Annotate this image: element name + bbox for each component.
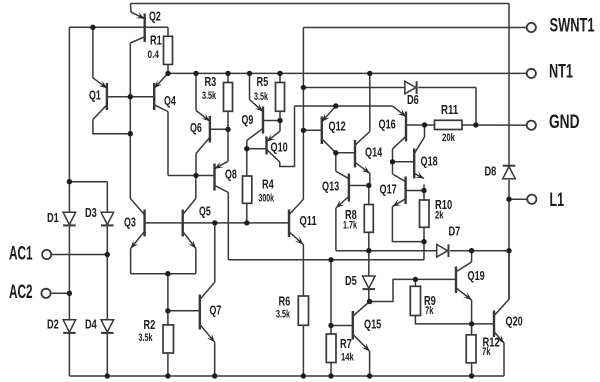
wire R9 top stub: [414, 279, 416, 286]
wire Q18 base wire: [393, 161, 415, 163]
diode D2: [63, 320, 76, 333]
wire Q1 collector path: [93, 120, 130, 134]
wire Q2 collector drop x130: [129, 43, 131, 199]
svg-text:R3: R3: [205, 74, 217, 89]
svg-text:D3: D3: [85, 205, 97, 220]
wire mid rail x107 lower: [106, 226, 108, 320]
diode D5: [363, 276, 376, 289]
wire L1 lead: [509, 198, 527, 200]
junction Q15 base / R7 top: [328, 323, 333, 328]
wire Q15 emitter drop: [369, 351, 371, 376]
svg-text:D8: D8: [485, 163, 497, 178]
wire Q20 collector riser: [508, 251, 510, 300]
wire Q8 collector drop: [227, 193, 229, 260]
wire R10 bottom stub: [423, 227, 425, 241]
resistor R3: [224, 83, 233, 112]
junction Q9 base / R5 bottom: [277, 118, 282, 123]
junction Q18 emitter / R10 / Q17 base: [421, 188, 426, 193]
svg-text:Q10: Q10: [271, 140, 288, 155]
junction R9 top: [413, 277, 418, 282]
svg-text:3.5k: 3.5k: [139, 332, 153, 344]
junction R12 bottom / bottom bus: [469, 373, 474, 378]
wire Q15 base wire: [331, 325, 353, 327]
svg-text:1.7k: 1.7k: [343, 219, 357, 231]
resistor R10: [420, 200, 430, 227]
svg-text:Q12: Q12: [329, 119, 346, 134]
wire R10 corner riser: [423, 242, 425, 260]
junction Q2 collector / base rail: [128, 94, 133, 99]
svg-text:SWNT1: SWNT1: [550, 16, 595, 37]
wire Q8 base wire: [168, 175, 215, 177]
junction R11 right / D6 corner: [473, 122, 478, 127]
transistor Q15: [353, 302, 370, 352]
wire tail drop x168: [167, 274, 169, 325]
diode D7: [437, 244, 449, 257]
wire R5 bottom stub: [279, 111, 281, 120]
junction long rail / R7 branch: [328, 257, 333, 262]
wire Q5 emitter drop: [195, 249, 197, 274]
wire Q14 base wire: [336, 152, 355, 154]
svg-text:300k: 300k: [259, 192, 275, 204]
wire R8 top stub: [368, 186, 370, 205]
wire D6 corner drop: [475, 88, 477, 126]
wire Q14 collector riser: [369, 73, 371, 131]
transistor Q20: [494, 299, 509, 343]
wire AC1 lead: [51, 254, 107, 256]
svg-text:R2: R2: [144, 317, 156, 332]
wire Q7 emitter drop: [214, 342, 216, 376]
wire Q9 base wire: [263, 120, 280, 122]
svg-text:0.4: 0.4: [148, 49, 160, 61]
wire left rail x69 mid: [68, 226, 70, 320]
transistor Q3: [130, 199, 144, 249]
svg-text:Q1: Q1: [89, 88, 101, 103]
svg-text:D7: D7: [449, 224, 461, 239]
transistor Q13: [336, 171, 349, 208]
svg-text:R1: R1: [150, 33, 162, 48]
wire R5 top stub: [279, 73, 281, 82]
diode D3: [101, 212, 114, 225]
wire Q17 base wire: [406, 190, 424, 192]
junction Q1 collector / x130 rail: [128, 131, 133, 136]
wire D5-R9 link: [370, 279, 456, 301]
svg-text:2k: 2k: [435, 210, 444, 222]
svg-text:R7: R7: [340, 336, 352, 351]
svg-text:Q8: Q8: [225, 167, 237, 182]
junction Q19 collector / D7 line: [469, 248, 474, 253]
wire Q5 collector riser: [195, 176, 197, 199]
svg-text:D6: D6: [407, 92, 419, 107]
wire SWNT1 line: [303, 27, 526, 29]
junction D7 line / right rail: [506, 248, 511, 253]
wire Q7 collector riser: [214, 223, 216, 282]
resistor R2: [163, 325, 174, 353]
transistor Q19: [456, 262, 472, 300]
transistor Q16: [393, 106, 407, 149]
junction Q14 collector / bus: [367, 71, 372, 76]
junction R10 bottom / Q17 emitter: [421, 239, 426, 244]
svg-text:20k: 20k: [442, 132, 456, 144]
transistor Q6: [196, 111, 210, 154]
terminal AC1: [42, 250, 51, 259]
wire Q6 collector drop: [195, 154, 197, 176]
wire Q14 emitter drop: [369, 173, 371, 185]
wire R11 left stub: [425, 124, 435, 126]
svg-text:D1: D1: [47, 210, 59, 225]
svg-text:Q15: Q15: [364, 317, 381, 332]
wire left rail x69 upper: [68, 27, 70, 212]
transistor Q10: [267, 131, 281, 162]
wire right rail D8-to-L1 segment: [508, 180, 510, 251]
junction R7 bottom / bottom bus: [328, 373, 333, 378]
diode D6: [405, 81, 417, 94]
wire Q12 base wire: [303, 129, 321, 131]
wire R7 branch drop: [330, 260, 332, 334]
svg-text:7k: 7k: [425, 305, 434, 317]
svg-text:3.5k: 3.5k: [254, 91, 268, 103]
junction Q12 base / x303: [301, 128, 306, 133]
wire Q13 emitter path: [335, 208, 337, 251]
transistor Q11: [289, 199, 303, 244]
wire D5 bottom stub: [368, 290, 370, 302]
wire D6 line left: [303, 87, 404, 89]
wire Q13 base wire: [349, 185, 369, 187]
diode D1: [63, 212, 76, 225]
wire Q6 emitter riser: [195, 73, 197, 110]
wire D1-D3 link y181: [69, 181, 107, 183]
wire right rail upper segment: [508, 4, 510, 166]
transistor Q7: [200, 282, 215, 342]
junction Q12 emitter / y106 rail: [333, 103, 338, 108]
terminal NT1: [527, 69, 536, 78]
svg-text:Q19: Q19: [468, 268, 485, 283]
junction Q12 collector / Q14 base / Q13 collector: [333, 150, 338, 155]
svg-text:D4: D4: [85, 317, 97, 332]
wire D7 line right: [450, 250, 509, 252]
svg-text:Q2: Q2: [149, 8, 161, 23]
wire D6 line right to corner: [418, 87, 476, 89]
svg-text:Q18: Q18: [421, 154, 438, 169]
junction R1 bottom / bus / Q4 emitter: [165, 71, 170, 76]
diode D8: [503, 166, 516, 179]
wire input base rail y223: [145, 222, 289, 224]
junction L1 / right rail: [506, 197, 511, 202]
terminal GND: [527, 121, 536, 130]
svg-text:R11: R11: [441, 102, 458, 117]
wire Q18 emitter drop: [423, 185, 425, 191]
wire Q8 emitter riser: [227, 129, 229, 161]
junction R8 bottom / D7 line / D5: [366, 248, 371, 253]
junction Q6 collector / Q8 base / Q5 collector: [193, 173, 198, 178]
wire right rail L1-to-Q20 segment: [508, 251, 510, 300]
transistor Q5: [183, 199, 196, 249]
svg-text:Q20: Q20: [506, 314, 523, 329]
wire Q18 collector riser: [424, 125, 426, 137]
wire Q6 base wire: [210, 128, 228, 130]
wire Q9 collector drop: [246, 141, 248, 149]
svg-text:Q3: Q3: [124, 215, 136, 230]
wire left rail x69 lower: [68, 334, 70, 377]
wire Q16-Q17 collector link x392: [392, 149, 394, 174]
junction tail / x168 drop: [165, 271, 170, 276]
resistor R6: [298, 296, 308, 325]
junction Q6 base / R3 bottom: [225, 127, 230, 132]
junction R3 / bus: [225, 71, 230, 76]
svg-text:14k: 14k: [341, 352, 354, 364]
svg-text:R6: R6: [279, 294, 291, 309]
wire R4 top stub: [246, 149, 248, 176]
wire Q9 emitter riser: [249, 73, 251, 99]
svg-text:3.5k: 3.5k: [276, 308, 290, 320]
wire main bus y73: [168, 72, 527, 74]
junction Q7 base / R2 top: [165, 308, 170, 313]
transistor Q1: [93, 78, 107, 120]
svg-text:7k: 7k: [482, 346, 491, 358]
svg-text:AC2: AC2: [9, 282, 33, 303]
svg-text:L1: L1: [550, 190, 565, 211]
junction D5 bottom / Q15 collector: [367, 299, 372, 304]
wire bottom bus: [69, 375, 504, 377]
junction Q9 emitter / bus: [247, 71, 252, 76]
wire Q20 emitter drop: [503, 343, 505, 376]
junction Q14 emitter / R8 / Q13 base: [366, 183, 371, 188]
wire R1 bottom stub: [167, 65, 169, 74]
transistor Q14: [355, 132, 370, 174]
wire Q10 collector path: [280, 106, 295, 167]
wire R12 bottom stub: [471, 363, 473, 376]
wire D5 top stub: [368, 251, 370, 276]
resistor R1: [164, 36, 173, 64]
transistor Q4: [154, 73, 168, 111]
wire long rail y260: [228, 259, 424, 261]
wire AC2 lead: [51, 292, 70, 294]
wire Q19 collector riser: [471, 251, 473, 262]
junction Q19 emitter / R12 / Q20 base: [469, 321, 474, 326]
svg-text:AC1: AC1: [9, 243, 33, 264]
wire Q10 base wire: [247, 148, 267, 150]
junction R6 bottom / bottom bus: [301, 373, 306, 378]
transistor Q8: [215, 161, 229, 192]
svg-text:GND: GND: [549, 112, 580, 133]
wire R7 bottom stub: [330, 363, 332, 377]
transistor Q9: [247, 100, 263, 141]
wire R9 bottom path: [415, 316, 494, 324]
wire Q2 emitter bend: [130, 4, 133, 13]
wire emitter rail y106: [295, 105, 393, 107]
wire R3 bottom stub: [227, 111, 229, 129]
junction Q9 collector / Q10 base / R4: [244, 146, 249, 151]
wire mid rail x107: [106, 182, 108, 213]
wire Q16 base wire: [406, 124, 425, 126]
junction Q1 emitter / y27 rail: [90, 25, 95, 30]
resistor R5: [276, 83, 285, 112]
svg-text:Q14: Q14: [365, 145, 383, 160]
resistor R11: [435, 120, 463, 129]
junction Q6 emitter / bus: [193, 71, 198, 76]
wire Q11 emitter drop to R6: [302, 245, 304, 297]
svg-text:D5: D5: [345, 273, 357, 288]
junction Q7 collector / input rail: [212, 220, 217, 225]
wire SWNT1 vertical x303: [302, 28, 304, 200]
wire R2 bottom stub: [167, 353, 169, 376]
junction R2 bottom / bottom bus: [165, 373, 170, 378]
wire Q1 emitter riser: [92, 27, 94, 78]
transistor Q17: [392, 174, 405, 207]
svg-text:R4: R4: [262, 177, 274, 192]
wire base rail y27 left: [69, 26, 168, 28]
resistor R7: [326, 334, 336, 363]
svg-text:3.5k: 3.5k: [202, 90, 216, 102]
junction AC2 / x69 rail: [67, 291, 72, 296]
svg-text:Q6: Q6: [190, 120, 202, 135]
wire Q19 emitter drop: [471, 300, 473, 324]
resistor R12: [466, 335, 476, 363]
wire R6 bottom stub: [302, 325, 304, 376]
svg-text:Q5: Q5: [199, 204, 211, 219]
junction Q16 base / R11 / Q18 collector: [422, 122, 427, 127]
wire R11 right line to GND: [462, 124, 527, 126]
transistor Q18: [414, 137, 424, 179]
wire R10 top stub: [423, 191, 425, 201]
terminal SWNT1: [527, 23, 536, 32]
junction Q16 collector / Q18 base / Q17 collector: [390, 159, 395, 164]
resistor R4: [243, 176, 252, 203]
junction Q15 emitter / bottom bus: [367, 373, 372, 378]
wire R1 top stub: [167, 27, 169, 36]
wire R12 top stub: [471, 324, 473, 335]
svg-text:D2: D2: [47, 317, 59, 332]
wire Q7 base wire: [168, 310, 200, 312]
junction D4 bottom / bottom bus: [105, 373, 110, 378]
svg-text:R5: R5: [257, 74, 269, 89]
svg-text:Q17: Q17: [380, 182, 397, 197]
junction AC1 / x107 rail: [105, 252, 110, 257]
junction D1 top / y181 link: [67, 179, 72, 184]
terminal AC2: [41, 289, 50, 298]
svg-text:Q7: Q7: [210, 303, 222, 318]
svg-text:Q9: Q9: [242, 112, 254, 127]
transistor Q2: [130, 12, 144, 43]
wire Q4 collector drop: [167, 112, 169, 176]
svg-text:Q11: Q11: [300, 213, 317, 228]
wire R4 bottom stub: [246, 203, 248, 223]
wire D7 line left: [336, 250, 437, 252]
wire R8 bottom stub: [368, 232, 370, 250]
wire top rail: [131, 3, 510, 5]
terminal L1: [527, 195, 536, 204]
wire Q17 emitter path: [392, 207, 424, 242]
wire Q3 emitter drop: [130, 249, 132, 274]
junction D6 line / x303: [301, 85, 306, 90]
svg-text:Q13: Q13: [322, 179, 339, 194]
transistor Q12: [322, 106, 336, 153]
svg-text:Q16: Q16: [379, 117, 396, 132]
junction R4 bottom / input rail: [244, 220, 249, 225]
junction R5 / bus: [277, 71, 282, 76]
wire mid rail x107 bottom: [106, 334, 108, 377]
diode D4: [101, 320, 114, 333]
junction Q7 emitter / bottom bus: [212, 373, 217, 378]
svg-text:NT1: NT1: [549, 62, 573, 83]
wire Q13 collector drop: [335, 153, 337, 171]
wire R3 top stub: [227, 73, 229, 82]
resistor R8: [364, 205, 373, 233]
wire Q10 emitter riser: [279, 121, 281, 132]
svg-text:Q4: Q4: [164, 93, 176, 108]
wire Q1-Q4 base rail: [107, 96, 154, 98]
wire tail rail y274: [131, 273, 196, 275]
resistor R9: [410, 286, 420, 315]
